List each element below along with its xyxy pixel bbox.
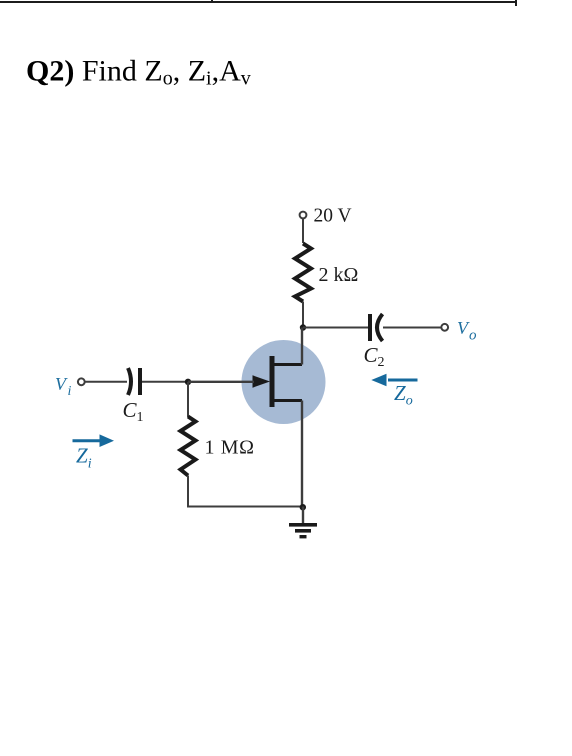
node source-ground junction — [300, 504, 306, 510]
wire R1 to drain node — [302, 302, 304, 328]
svg-text:Q2) Find Zo, Zi,Av: Q2) Find Zo, Zi,Av — [26, 55, 251, 90]
wire junction to ground — [302, 507, 304, 524]
svg-text:2 kΩ: 2 kΩ — [319, 264, 359, 286]
wire VDD to R1 — [302, 219, 304, 244]
wire gate node to RG — [187, 382, 189, 417]
node drain junction — [300, 324, 306, 330]
svg-text:1 MΩ: 1 MΩ — [205, 437, 255, 459]
transistor Q1 highlight circle — [242, 340, 326, 424]
wire gate node to gate arrow — [188, 381, 254, 383]
wire source vertical — [301, 401, 303, 508]
node VDD terminal — [300, 212, 307, 219]
resistor 2 kOhm — [295, 244, 311, 302]
ground — [289, 523, 317, 538]
capacitor C2 — [370, 314, 383, 341]
wire Vi to C1 — [85, 381, 127, 383]
svg-text:Vi: Vi — [55, 374, 72, 399]
frame corner tick — [515, 0, 517, 6]
node Vo terminal — [441, 324, 448, 331]
svg-text:C2: C2 — [364, 343, 385, 370]
wire drain vertical — [301, 328, 303, 365]
svg-text:Vo: Vo — [457, 318, 477, 344]
column tick — [211, 0, 213, 3]
svg-text:Zo: Zo — [394, 381, 413, 409]
resistor 1 MOhm — [181, 417, 196, 476]
arrow Zo — [371, 374, 417, 387]
top rule — [0, 1, 517, 3]
node Vi terminal — [78, 378, 85, 385]
arrow Zi — [73, 434, 115, 447]
node gate junction — [185, 379, 191, 385]
svg-text:Zi: Zi — [76, 444, 92, 472]
wire C1 to gate node — [142, 381, 188, 383]
wire RG to ground rail — [188, 476, 303, 507]
capacitor C1 — [128, 368, 140, 395]
svg-text:20 V: 20 V — [314, 206, 352, 227]
wire C2 to Vo terminal — [383, 327, 442, 329]
wire drain node to C2 — [303, 327, 368, 329]
svg-text:C1: C1 — [123, 398, 144, 425]
transistor Q1 JFET symbol — [253, 356, 303, 407]
